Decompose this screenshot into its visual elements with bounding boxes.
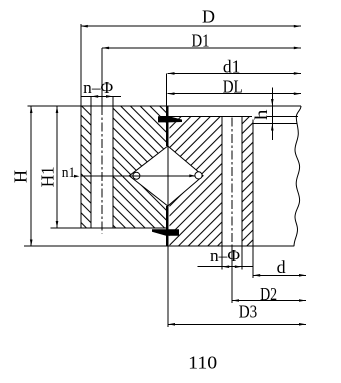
- svg-text:D: D: [202, 7, 215, 27]
- D3 arrows: [168, 323, 175, 326]
- inner bolt hole left wall: [221, 117, 223, 247]
- extension raceway center below: [167, 246, 169, 327]
- dimension line n-phi top: [81, 95, 121, 97]
- svg-text:110: 110: [188, 353, 217, 373]
- dimension line d1: [168, 72, 301, 74]
- bottom line (inner ring + support): [24, 245, 294, 247]
- dimension line D: [81, 25, 301, 27]
- svg-text:h: h: [251, 110, 271, 121]
- dimension line n-phi bottom: [198, 266, 253, 268]
- outer bolt hole centerline (dash-dot): [101, 48, 103, 106]
- svg-text:n–Φ: n–Φ: [83, 78, 113, 97]
- svg-text:n1: n1: [62, 165, 76, 181]
- outer bolt hole left wall: [90, 96, 92, 228]
- DL arrows: [168, 92, 175, 95]
- outer ring hatched body: [113, 106, 167, 228]
- raceway gap above diamond (thick): [166, 106, 168, 146]
- top seal (black wedge): [158, 116, 182, 122]
- n1 leader line: [81, 175, 196, 177]
- extension inner hole centerline below: [231, 246, 233, 303]
- svg-text:d: d: [277, 257, 286, 277]
- dimension line H1: [56, 106, 58, 228]
- dimension line D3: [168, 323, 306, 325]
- raceway gap below diamond (thick): [166, 206, 168, 246]
- svg-text:DL: DL: [223, 76, 243, 96]
- D arrows: [81, 25, 88, 28]
- label h with white backing: [252, 109, 267, 120]
- d1 arrows: [168, 72, 175, 75]
- svg-text:H: H: [11, 170, 31, 183]
- D1 arrows: [102, 47, 109, 50]
- outer ring hatched strip left of bolt hole: [81, 106, 91, 228]
- raceway diamond (ball path), white fill: [129, 146, 203, 206]
- H arrows: [30, 106, 33, 113]
- dimension line H: [30, 106, 32, 247]
- n-phi bottom arrows: [222, 265, 229, 268]
- bottom seal (black wedge): [152, 229, 179, 236]
- grease hole circle right: [195, 172, 202, 179]
- svg-text:H1: H1: [37, 166, 57, 187]
- svg-text:D2: D2: [260, 284, 277, 304]
- svg-text:d1: d1: [223, 57, 241, 77]
- inner bolt hole right wall: [241, 117, 243, 247]
- dimension line DL: [168, 93, 301, 95]
- dimension line h: [271, 88, 273, 141]
- svg-text:D1: D1: [192, 31, 210, 51]
- dimension line D1: [102, 47, 301, 49]
- svg-text:D3: D3: [239, 302, 258, 322]
- outer bolt hole right wall: [112, 96, 114, 228]
- outer ring left edge: [80, 24, 82, 228]
- grease hole circle left: [133, 172, 140, 179]
- raceway center vertical line: [167, 146, 169, 206]
- extension inner hole left wall below: [221, 246, 223, 269]
- inner ring hatched strip right of bolt hole: [242, 117, 253, 247]
- inner ring top surface line: [160, 116, 298, 118]
- svg-text:n–Φ: n–Φ: [210, 246, 240, 265]
- extension inner hole right wall below: [241, 246, 243, 269]
- inner bolt hole centerline (dash-dot): [231, 118, 233, 247]
- n-phi top arrows: [91, 95, 98, 98]
- D2 arrows: [232, 299, 239, 302]
- extension inner ring right edge below: [252, 246, 254, 278]
- break (wavy) line right side: [294, 106, 301, 246]
- dimension line d: [253, 274, 306, 276]
- d1 extension line above surface: [166, 73, 168, 106]
- d arrows: [253, 274, 260, 277]
- n1 leader arrows: [74, 175, 80, 178]
- outer ring bottom line: [51, 227, 167, 229]
- inner ring right edge: [252, 117, 254, 247]
- top surface line: [27, 105, 301, 107]
- inner ring hatched body: [170, 117, 223, 247]
- H1 arrows: [56, 106, 59, 113]
- h arrows: [271, 99, 274, 106]
- step line right structure: [253, 123, 297, 125]
- dimension line D2: [232, 300, 306, 302]
- arrowheads: [30, 25, 306, 326]
